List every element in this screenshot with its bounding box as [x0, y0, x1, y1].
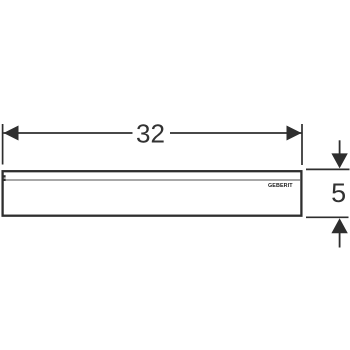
dimension 5: bottom arrow stem	[339, 233, 341, 248]
svg-text:5: 5	[331, 178, 346, 208]
profile bar outer rectangle	[3, 171, 302, 216]
dimension 32: left extension line	[2, 124, 4, 165]
dimension 5: bottom arrowhead pointing up	[331, 218, 347, 233]
svg-text:GEBERIT: GEBERIT	[268, 183, 293, 189]
dimension 32: line right segment	[170, 132, 302, 134]
svg-text:32: 32	[136, 119, 165, 149]
profile bar left edge detail mark	[3, 175, 6, 177]
dimension 32: left arrowhead	[4, 126, 19, 141]
profile bar inner gray line	[4, 179, 301, 181]
dimension 5: top tick line	[306, 168, 350, 170]
dimension 32: line left segment	[4, 132, 133, 134]
dimension 5: top arrowhead pointing down	[331, 153, 347, 168]
dimension 32: right extension line	[301, 124, 303, 165]
dimension 5: top arrow stem	[339, 140, 341, 154]
dimension 5: bottom tick line	[306, 216, 349, 218]
dimension 32: right arrowhead	[287, 126, 302, 141]
profile bar left edge detail mark lower	[3, 179, 6, 181]
